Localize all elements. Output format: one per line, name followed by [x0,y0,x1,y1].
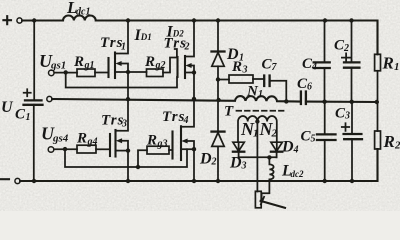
svg-text:g1: g1 [84,60,95,71]
svg-text:gs1: gs1 [50,60,66,72]
svg-text:R: R [144,54,155,70]
svg-text:dc2: dc2 [291,169,304,179]
svg-text:R: R [73,54,84,70]
svg-text:g4: g4 [87,137,98,148]
svg-text:dc1: dc1 [76,7,90,18]
svg-text:3: 3 [242,65,248,76]
svg-text:6: 6 [307,82,312,93]
svg-text:R: R [76,131,87,147]
svg-text:D: D [229,155,242,172]
svg-text:1: 1 [258,89,263,100]
svg-text:3: 3 [121,119,127,130]
svg-text:2: 2 [271,128,278,140]
svg-text:C: C [15,107,26,123]
svg-text:2: 2 [343,43,349,54]
svg-text:2: 2 [211,157,217,168]
svg-text:R: R [382,54,394,73]
svg-text:4: 4 [311,62,317,73]
svg-text:gs4: gs4 [52,133,69,145]
svg-text:g3: g3 [157,139,168,150]
svg-text:R: R [231,59,242,75]
svg-text:1: 1 [121,42,126,53]
svg-text:D1: D1 [140,32,152,42]
svg-text:3: 3 [241,161,247,172]
svg-text:2: 2 [184,42,190,53]
svg-text:T: T [224,104,234,120]
svg-text:4: 4 [293,145,299,156]
svg-text:R: R [146,133,157,149]
svg-text:R: R [383,132,395,151]
svg-text:Trs: Trs [162,109,186,125]
svg-text:D: D [199,151,212,168]
svg-text:2: 2 [394,140,400,152]
svg-text:D: D [281,139,294,156]
svg-text:3: 3 [344,111,350,122]
svg-text:1: 1 [394,61,400,73]
svg-text:U: U [1,99,14,116]
svg-text:1: 1 [26,112,31,123]
svg-text:5: 5 [311,134,316,145]
svg-text:4: 4 [183,115,189,126]
svg-text:1: 1 [253,128,259,140]
svg-text:g2: g2 [155,60,166,71]
